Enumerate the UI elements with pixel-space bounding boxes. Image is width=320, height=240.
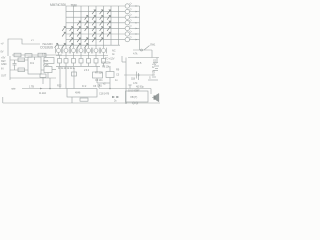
svg-text:C4Ω: C4Ω xyxy=(97,84,102,88)
svg-text:34.5: 34.5 xyxy=(136,61,142,65)
svg-text:note: note xyxy=(11,87,16,91)
svg-text:2 3 4: 2 3 4 xyxy=(84,69,90,72)
svg-text:4046: 4046 xyxy=(75,91,81,95)
svg-text:XB (T): XB (T) xyxy=(130,95,137,99)
svg-text:R12: R12 xyxy=(57,84,62,88)
svg-text:1 TB: 1 TB xyxy=(29,85,34,89)
svg-text:1k 1k 1k 1k 1k 1k: 1k 1k 1k 1k 1k 1k xyxy=(58,67,76,70)
svg-text:TO +12V: TO +12V xyxy=(105,57,115,61)
svg-text:C3 10n: C3 10n xyxy=(95,78,103,82)
svg-text:GND: GND xyxy=(1,62,7,66)
svg-text:10 Ω 90 μF: 10 Ω 90 μF xyxy=(128,89,140,93)
svg-text:IC1: IC1 xyxy=(30,61,34,65)
svg-text:C4 100n: C4 100n xyxy=(102,61,111,65)
svg-text:OUT: OUT xyxy=(1,74,7,78)
svg-text:Px45: Px45 xyxy=(43,63,49,67)
svg-text:4Ω 90μ: 4Ω 90μ xyxy=(136,84,144,88)
svg-text:C18 1476: C18 1476 xyxy=(99,92,110,96)
svg-text:R7 22k: R7 22k xyxy=(95,71,103,75)
svg-text:+V: +V xyxy=(1,42,4,46)
svg-text:SW1: SW1 xyxy=(150,43,156,47)
svg-text:11 kHz: 11 kHz xyxy=(39,91,47,95)
svg-text:IC 2: IC 2 xyxy=(82,84,87,88)
svg-text:7555: 7555 xyxy=(43,59,49,63)
svg-text:R8 10k: R8 10k xyxy=(102,65,110,69)
svg-text:IN: IN xyxy=(1,67,4,71)
svg-text:COLBUS: COLBUS xyxy=(40,45,54,49)
svg-text:TBB: TBB xyxy=(71,3,78,7)
svg-text:0V: 0V xyxy=(1,50,4,54)
svg-text:11B: 11B xyxy=(131,76,135,80)
svg-text:NC: NC xyxy=(112,49,116,53)
svg-text:MM74C926: MM74C926 xyxy=(50,3,66,7)
